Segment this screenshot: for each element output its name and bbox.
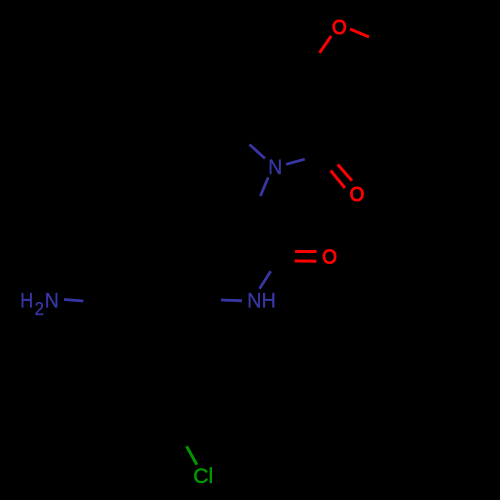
carbonyl O1 double bond (upper line)	[338, 165, 352, 181]
wire: N to methyl (up-left half-bond)	[250, 145, 266, 159]
svg-text:O: O	[350, 184, 365, 206]
wire: furan O to C7a (right half-bond)	[350, 29, 369, 37]
wire: furan O to C2 (left half-bond)	[320, 36, 332, 53]
svg-text:H: H	[20, 288, 33, 312]
svg-text:2: 2	[35, 299, 44, 319]
wire: NH to aryl C (left half-bond)	[221, 299, 242, 303]
svg-text:O: O	[332, 17, 347, 39]
carbonyl O1 double bond (lower line)	[331, 170, 345, 188]
svg-text:Cl: Cl	[193, 464, 213, 488]
wire: N to CH2 (down half-bond)	[260, 177, 268, 196]
carbonyl O2 double bond (upper line)	[295, 250, 317, 253]
wire: Cl to aryl C (up-left half-bond)	[187, 446, 197, 464]
wire: NH to carbonyl C (up-right half-bond)	[260, 271, 271, 289]
svg-text:O: O	[322, 246, 337, 268]
svg-text:N: N	[45, 288, 59, 312]
svg-text:NH: NH	[247, 288, 276, 312]
wire: N to carbonyl C (right half-bond)	[286, 159, 305, 164]
svg-text:N: N	[268, 155, 282, 179]
carbonyl O2 double bond (lower line)	[295, 259, 317, 262]
wire: H2N to aryl C (right half-bond)	[64, 300, 83, 302]
